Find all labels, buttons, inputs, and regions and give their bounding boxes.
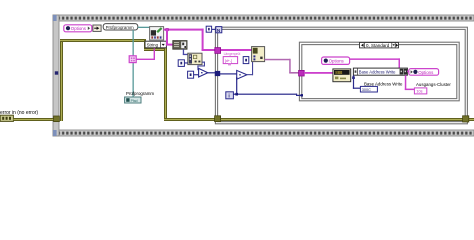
- numeric constant (comparator input): [188, 71, 194, 78]
- magenta wire down to for-loop tunnel: [202, 29, 204, 51]
- error wire segment under String selector: [144, 48, 166, 51]
- junction + wire to numeric constant below node: [352, 75, 360, 89]
- svg-text:300C: 300C: [362, 88, 371, 92]
- stub wire constant to comparator 1: [193, 74, 198, 75]
- violet wire scan icon to case tunnel: [265, 59, 300, 74]
- sequence corner accent bottom-left: [53, 130, 57, 136]
- error wire tunnel on for-loop left border: [215, 116, 221, 122]
- error wire vertical mid segment: [164, 48, 167, 121]
- magenta tunnel on case left border: [299, 70, 305, 76]
- numeric constant (index array input): [178, 60, 184, 67]
- error wire top horizontal segment: [60, 39, 145, 42]
- stub wire constant to index array: [185, 62, 188, 63]
- wire iteration terminal to case structure: [233, 94, 302, 96]
- magenta wire tunnel to FXP icon: [304, 72, 333, 74]
- path wire branch down: [133, 30, 134, 97]
- magenta tunnel on for-loop left border: [215, 48, 221, 54]
- Base Address Write property node: [353, 68, 407, 75]
- wire constant to N terminal: [212, 29, 216, 30]
- VI icon 2 (match pattern, dark): [173, 41, 187, 50]
- iteration terminal: [226, 92, 234, 100]
- svg-text:Options: Options: [71, 26, 87, 31]
- error wire long bottom horizontal to image edge: [164, 118, 474, 121]
- String type selector: [145, 41, 166, 48]
- wire comparator 2 output up to scan icon: [247, 62, 253, 76]
- pink stub to bundle box: [407, 71, 410, 73]
- sequence structure bottom border (film strip): [53, 130, 474, 136]
- local variable arrow icon: [93, 25, 101, 31]
- svg-text:Prüfprogramm: Prüfprogramm: [106, 25, 134, 30]
- case selector label "0, Standard": [360, 43, 399, 49]
- end nub at case border: [301, 94, 303, 96]
- path wire Prüfprogramm to VI icon: [138, 27, 150, 28]
- FXP numeric icon: [333, 69, 351, 82]
- svg-text:Längenprüf.: Längenprüf.: [224, 52, 242, 56]
- svg-text:Base Address Write: Base Address Write: [364, 82, 403, 87]
- for-loop N count terminal: [216, 27, 222, 33]
- error wire: from error-in to sequence tunnel: [13, 118, 54, 121]
- case structure frame: [299, 42, 459, 101]
- svg-text:888: 888: [335, 70, 343, 75]
- wire tunnel to comparator 2: [220, 73, 237, 74]
- sequence structure left border bar: [53, 15, 59, 136]
- error wire jog down at String box left: [144, 39, 146, 49]
- constant feeding N terminal: [206, 26, 211, 32]
- sequence corner accent top-left: [53, 15, 57, 21]
- svg-text:String: String: [147, 43, 159, 48]
- pink wire options to property node: [350, 58, 400, 68]
- pink empty constant (left, on path wire): [129, 56, 136, 63]
- Options unbundle box (in case): [322, 57, 350, 64]
- magenta branch down to scan icon: [166, 29, 168, 45]
- error wire vertical left segment: [60, 39, 63, 121]
- magenta junction dot: [166, 28, 169, 31]
- Options bundle box (right): [409, 69, 439, 76]
- svg-text:10s: 10s: [416, 90, 422, 94]
- regex string constant: [223, 57, 237, 66]
- Prüfprogramm terminal icon: [125, 97, 141, 103]
- index array icon: [188, 53, 202, 64]
- branch up to comparator 2: [236, 77, 237, 94]
- comparator 2: [237, 70, 247, 79]
- wire comparator 1 to tunnel: [208, 72, 216, 73]
- pink wire down from property node to constant: [405, 75, 415, 90]
- scan from string icon: [252, 47, 265, 62]
- error wire tunnel on sequence border: [54, 116, 60, 122]
- unused tunnel on sequence left border: [55, 71, 58, 74]
- svg-text:Options: Options: [418, 70, 434, 75]
- VI icon 1 (string function): [150, 27, 164, 40]
- svg-text:0, Standard: 0, Standard: [366, 43, 390, 48]
- svg-text:Options: Options: [329, 59, 345, 64]
- error in terminal icon: [0, 115, 13, 121]
- svg-text:Ausgangs-Cluster: Ausgangs-Cluster: [416, 82, 451, 87]
- Prüfprogramm string/path constant: [103, 24, 138, 30]
- error wire tunnel on for-loop right border: [463, 116, 469, 122]
- blue wire from icon2 down to index array: [183, 49, 184, 54]
- wire index array to comparator 1 (s-bend): [197, 62, 205, 71]
- svg-text:Pfad: Pfad: [131, 99, 138, 103]
- junction dot on iteration wire: [235, 93, 238, 96]
- svg-text:Base Address Write: Base Address Write: [359, 70, 396, 75]
- Options unbundle box (top left): [64, 25, 92, 32]
- svg-text:Prüfprogramm: Prüfprogramm: [126, 91, 154, 96]
- numeric constant 300C: [360, 86, 377, 92]
- numeric constant right of regex: [243, 57, 249, 64]
- sequence structure top border (film strip): [53, 15, 474, 21]
- comparator 1: [199, 68, 208, 77]
- blue tunnel on for-loop left border: [215, 71, 220, 76]
- magenta wire from VI icon 1 to the right: [164, 29, 204, 31]
- pink wire from empty constant to String selector: [136, 48, 155, 60]
- svg-text:[d+-]: [d+-]: [225, 59, 232, 63]
- for loop frame: [215, 27, 467, 124]
- pink constant 10s: [414, 88, 426, 94]
